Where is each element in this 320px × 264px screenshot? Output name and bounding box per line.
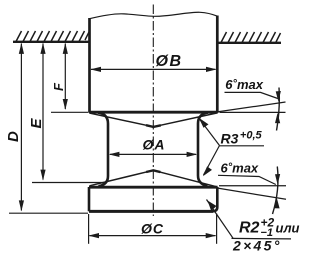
extension line C right: [216, 214, 218, 244]
extension line E: [32, 182, 104, 184]
svg-text:6°max: 6°max: [225, 77, 263, 92]
arrowhead R3 lower: [203, 166, 212, 176]
apex blob top cone: [146, 125, 161, 127]
apex blob bottom cone: [146, 170, 160, 172]
svg-text:ØA: ØA: [143, 137, 165, 153]
arrowhead R2: [208, 201, 217, 212]
top angle reference horizontal extension: [220, 111, 286, 113]
arrowheads diameter B: [90, 67, 101, 72]
hatching right surface: [221, 32, 281, 43]
diameter C dimension line: [90, 235, 216, 237]
bottom shoulder line: [89, 186, 218, 189]
body left edge upper: [88, 18, 91, 113]
top taper extension line: [218, 102, 286, 112]
extension line C left: [88, 214, 90, 244]
R2 leader shaft: [207, 200, 234, 239]
arrowhead R3 upper: [199, 118, 209, 128]
svg-text:D: D: [5, 131, 22, 142]
conical seat top V left: [90, 113, 153, 127]
dimension E line: [42, 44, 44, 180]
counterbore bottom shoulder line (top): [89, 111, 218, 114]
hatching left surface: [16, 31, 89, 42]
bottom edge: [89, 210, 213, 213]
lower counterbore right wall: [213, 187, 218, 211]
arrowheads diameter C: [88, 233, 99, 238]
diameter A dimension line: [110, 153, 196, 155]
arrowhead bottom angle lower (points up onto taper line): [274, 198, 279, 209]
conical seat bottom lambda left: [90, 170, 154, 186]
svg-text:или: или: [276, 221, 300, 236]
arrowheads D top/bottom: [19, 43, 24, 54]
bottom angle reference horizontal extension: [219, 185, 286, 187]
svg-text:E: E: [28, 118, 45, 129]
R3 label underline: [220, 145, 265, 147]
conical seat bottom lambda right: [153, 170, 217, 187]
arrowheads diameter A: [109, 152, 120, 157]
R2 label underline: [232, 237, 292, 240]
top angle arc: [277, 88, 280, 131]
waist wall left with fillets R3: [98, 113, 108, 187]
svg-text:F: F: [51, 82, 66, 91]
svg-text:R2: R2: [239, 220, 260, 237]
R3 leader lower segment: [204, 146, 220, 176]
extension line F: [51, 111, 88, 113]
dimension F line: [64, 44, 66, 110]
wavy break line top of body: [90, 12, 218, 18]
top 6max label underline and bend: [225, 92, 278, 98]
svg-text:ØC: ØC: [141, 221, 164, 237]
svg-text:2×45°: 2×45°: [232, 238, 282, 254]
R3 leader upper segment: [200, 119, 220, 146]
arrowhead top angle lower (points up onto horizontal): [275, 113, 280, 124]
arrowhead top angle upper (points down onto taper line): [276, 91, 281, 102]
mounting surface line right: [218, 42, 281, 44]
diameter B dimension line: [91, 68, 216, 70]
arrowheads F top/bottom: [63, 43, 68, 54]
svg-text:6°max: 6°max: [221, 161, 259, 176]
centerline: [152, 5, 154, 217]
arrowheads E top/bottom: [40, 43, 45, 54]
arrowhead bottom angle upper (points down onto horizontal): [275, 174, 280, 185]
bottom angle arc: [273, 167, 279, 215]
mounting surface line left: [13, 41, 89, 43]
bottom taper extension line: [219, 188, 287, 199]
waist wall right with fillets R3: [198, 113, 208, 186]
conical seat top V right: [153, 113, 216, 127]
extension line bottom D: [9, 212, 88, 214]
lower counterbore left wall: [88, 187, 91, 211]
bottom 6max label underline and bend: [218, 175, 276, 184]
body right edge upper: [216, 16, 219, 113]
dimension D line: [20, 44, 22, 211]
